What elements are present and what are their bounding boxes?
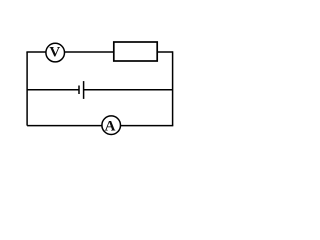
- battery cell positive plate (long): [83, 81, 85, 99]
- wire: ammeter to bottom-right corner: [121, 125, 174, 127]
- wire: right vertical bus: [172, 51, 174, 125]
- wire: bottom-left segment to ammeter: [27, 125, 102, 127]
- voltmeter V: [46, 43, 65, 62]
- battery cell negative plate (short): [78, 86, 80, 95]
- resistor R (rectangle box): [114, 42, 157, 61]
- ammeter A: [102, 116, 121, 135]
- wire: left vertical bus: [26, 52, 28, 126]
- wire: middle branch left of cell: [27, 89, 79, 91]
- wire: resistor to top-right corner: [157, 51, 172, 53]
- svg-text:A: A: [105, 118, 116, 134]
- wire: voltmeter to resistor: [65, 51, 114, 53]
- svg-text:V: V: [49, 45, 60, 61]
- wire: middle branch right of cell: [84, 89, 173, 91]
- wire: top-left segment to voltmeter: [26, 51, 46, 53]
